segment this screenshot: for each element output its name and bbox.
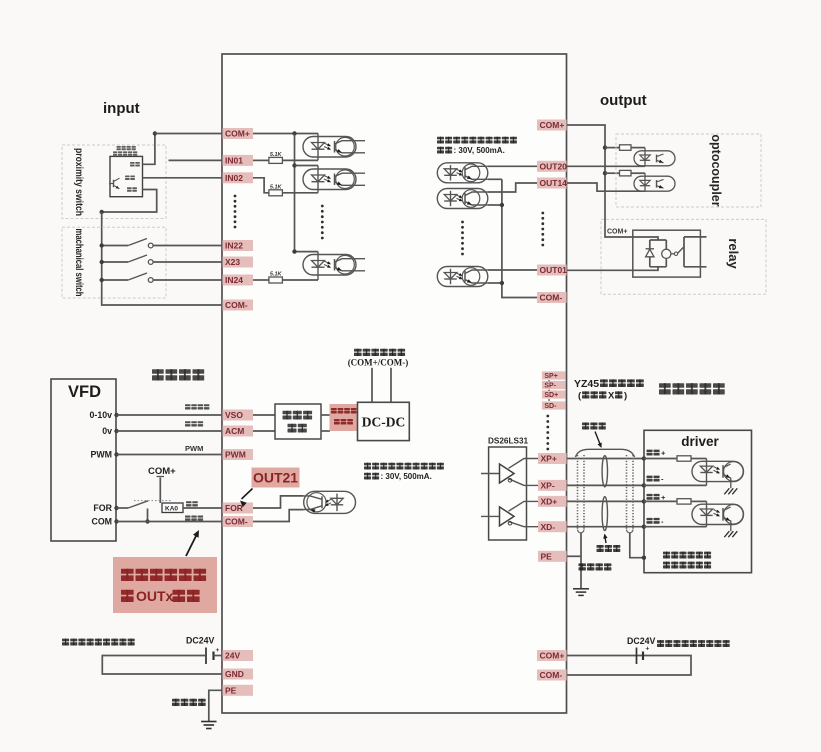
arrow note to COM- (186, 533, 198, 556)
note 注:用户自备电源2 (657, 640, 664, 643)
svg-text:PWM: PWM (91, 450, 113, 460)
tick SD+/SD- (548, 399, 550, 401)
terminal PWM (left mid) (223, 449, 254, 460)
junction bus opto3 (292, 249, 296, 253)
terminal COM- (left) (223, 300, 254, 311)
svg-text:FOR: FOR (93, 503, 112, 513)
svg-text:SP-: SP- (544, 383, 556, 390)
wire VSO (117, 414, 223, 416)
svg-text:5.1K: 5.1K (270, 272, 283, 278)
svg-text:DS26LS31: DS26LS31 (488, 437, 528, 446)
junction ext bus R5 (603, 171, 607, 175)
svg-text:5.1K: 5.1K (270, 184, 283, 190)
svg-text:driver: driver (681, 434, 719, 449)
svg-text:COM+: COM+ (540, 651, 565, 661)
junction driver edge y=458.5 (642, 456, 646, 460)
wire bus to R5 (605, 172, 620, 174)
svg-text:+: + (216, 647, 220, 654)
wire PWM (117, 454, 223, 456)
terminal XD- (538, 521, 567, 532)
switch S3 row (102, 273, 222, 282)
relay contact stub bottom (684, 266, 707, 268)
terminal IN22 (left) (223, 240, 254, 251)
arrow 屏蔽线 to cable (595, 432, 601, 447)
tick SP+/SP- (548, 380, 550, 382)
controller board outline (222, 54, 567, 713)
junction bus S3 (100, 278, 104, 282)
svg-text:XD+: XD+ (541, 497, 558, 507)
wire KA0 to FOR terminal (183, 507, 222, 509)
label 接屏蔽地 (right) (579, 563, 586, 566)
optocoupler U4 (OUT20) (437, 163, 488, 183)
svg-text:PE: PE (225, 685, 237, 695)
battery B2 (636, 648, 638, 665)
junction ext bus R4 (603, 145, 607, 149)
wire shield-left down to ground (580, 533, 582, 588)
svg-text:(COM+/COM-): (COM+/COM-) (348, 358, 409, 368)
junction driver edge y=501.4 (642, 499, 646, 503)
wire blue: sensor to common bus (102, 190, 157, 213)
svg-text:): ) (624, 391, 627, 402)
ellipsis dots input optos (321, 205, 324, 208)
wire OUT01 to relay coil (567, 267, 659, 271)
svg-text:KA0: KA0 (165, 506, 178, 513)
wire OUT14 jog to U5 (488, 183, 537, 192)
svg-text:+: + (661, 493, 666, 502)
terminal XD+ (538, 496, 567, 507)
note 注:用户自备电源1 (62, 639, 69, 642)
terminal OUT14 (right) (537, 178, 567, 189)
sensor caption line1 接近开关 (117, 146, 121, 148)
svg-text:: 30V, 500mA.: : 30V, 500mA. (454, 146, 505, 155)
wire ACM (117, 430, 223, 432)
wire contact to COM row (147, 509, 149, 522)
label 方向- (647, 518, 653, 520)
relay contact switch (671, 247, 684, 256)
junction driver edge y=485.4 (642, 483, 646, 487)
ellipsis dots below SD- (546, 415, 549, 418)
junction brown/COM+ (153, 131, 157, 135)
mechanical switch dashed box (62, 227, 166, 298)
svg-text:COM-: COM- (225, 517, 248, 527)
wire pulse- row (644, 484, 707, 486)
wire FOR internal (253, 496, 304, 508)
resistor R6 (677, 456, 691, 461)
svg-text:IN02: IN02 (225, 173, 243, 183)
label 正转 (186, 501, 192, 503)
terminal SP- (542, 381, 566, 390)
line driver B (XD) (481, 501, 538, 526)
svg-text:0-10v: 0-10v (90, 410, 113, 420)
relay contact stub top (684, 236, 707, 238)
wire IN24 to R3 (253, 279, 269, 281)
wire COM row (117, 521, 223, 523)
terminal XP- (538, 480, 567, 491)
input COM+ bus vertical (295, 134, 319, 252)
resistor R3 5.1K (269, 277, 283, 283)
note 接线方式请参考OUTx输出 box (113, 557, 217, 613)
wire COM+ battery loop (567, 656, 692, 676)
relay coil KA0 box (162, 503, 183, 513)
svg-text:output: output (600, 92, 647, 109)
switch S2 row (102, 255, 222, 264)
wire pulse+ to R6 (644, 458, 677, 460)
terminal COM- (right) (537, 292, 567, 303)
wire U5 emitter to bus (488, 204, 502, 206)
svg-text:OUT20: OUT20 (540, 161, 568, 171)
svg-text:YZ45: YZ45 (574, 378, 599, 390)
wire COM+ terminal feed (155, 133, 222, 135)
wire FOR pin to switch (117, 507, 129, 509)
common bus left (102, 212, 222, 305)
svg-text:PWM: PWM (185, 444, 203, 453)
optocoupler D1 (driver pulse) (692, 459, 744, 495)
svg-text:COM+: COM+ (607, 229, 627, 236)
switch blade KA0 contact (128, 501, 148, 508)
terminal FOR (left mid) (223, 503, 254, 514)
svg-text:COM-: COM- (225, 300, 248, 310)
wire DC-DC supply right (390, 368, 392, 403)
optocoupler U6 (OUT01) (437, 267, 488, 287)
relay K1 outer box (633, 230, 701, 277)
ground symbol (shield) (573, 589, 589, 596)
shield cable dome (576, 449, 635, 457)
DC-DC box (358, 402, 410, 440)
svg-text:X: X (608, 391, 615, 402)
note 请按设备的要求连接屏蔽线 (663, 552, 670, 555)
svg-text:IN22: IN22 (225, 241, 243, 251)
proximity sensor box (110, 156, 143, 196)
svg-text:COM+: COM+ (148, 466, 176, 477)
label 方向+ (647, 494, 653, 496)
optocoupler U9 (OUT21/FOR) (304, 491, 356, 513)
wire black: sensor to IN02 (143, 177, 223, 179)
svg-text:COM-: COM- (540, 670, 563, 680)
label 屏蔽线 (582, 423, 589, 426)
resistor R1 5.1K (269, 157, 283, 163)
dotted linkage (134, 500, 171, 502)
wire PE to shield (567, 555, 582, 557)
ellipsis dots input terminals (234, 195, 237, 198)
terminal ACM (left mid) (223, 426, 254, 437)
terminal OUT20 (right) (537, 161, 567, 172)
sensor wire label 棕 (130, 162, 135, 164)
wire XP- to driver (567, 484, 644, 486)
terminal IN02 (left) (223, 172, 254, 183)
svg-text:XP+: XP+ (541, 454, 557, 464)
wire PE to ground (209, 690, 223, 721)
junction bus S2 (100, 260, 104, 264)
sensor transistor Q (NPN) (109, 178, 120, 189)
wire OUT14 to ext opto2 cathode (567, 183, 646, 191)
wire IN02 jog to R2 (253, 178, 269, 193)
terminal PE (538, 551, 567, 562)
svg-text:0v: 0v (102, 426, 112, 436)
wire U6 emitter to bus (488, 282, 502, 284)
twisted pair ellipse 1 (602, 456, 607, 487)
terminal IN01 (left) (223, 155, 254, 166)
wire U4 emitter to bus (488, 178, 502, 180)
relay dashed box (601, 219, 766, 294)
optocoupler D2 (driver direction) (692, 501, 744, 537)
terminal 24V (223, 650, 254, 661)
wire dir+ to R7 (644, 500, 677, 502)
optocoupler U1 (IN01) (303, 134, 365, 161)
svg-text:COM+: COM+ (540, 120, 565, 130)
svg-text:SD-: SD- (544, 403, 557, 410)
resistor R7 (677, 499, 691, 504)
resistor R5 (620, 170, 632, 176)
wire IN01 to R1 (253, 159, 269, 161)
note max load (middle) (364, 463, 444, 482)
wire brown: sensor to COM+ (143, 134, 155, 165)
svg-text:DC-DC: DC-DC (362, 415, 406, 430)
junction driver edge y=526.7 (642, 525, 646, 529)
optocoupler U3 (IN24) (303, 252, 365, 280)
svg-text:PE: PE (541, 551, 553, 561)
battery B1 (205, 648, 207, 665)
svg-text:: 30V, 500mA.: : 30V, 500mA. (381, 472, 432, 481)
wire XD- to driver (567, 526, 644, 528)
svg-text:COM-: COM- (540, 293, 563, 303)
wire R5 to ext opto2 (631, 172, 645, 174)
arrow 双绞线 to pair (605, 536, 606, 543)
terminal XP+ (538, 453, 567, 464)
optocoupler U8 (external) (634, 173, 675, 191)
terminal COM+ (left) (223, 128, 254, 139)
terminal PE (left) (223, 685, 254, 696)
ellipsis dots output terminals (541, 212, 544, 215)
twisted pair ellipse 2 (602, 497, 607, 531)
proximity switch dashed box (62, 145, 166, 219)
label OUT21 box (252, 468, 300, 488)
label 双绞线 (597, 545, 604, 548)
relay branch bottom (650, 266, 667, 268)
label 脉冲+ (647, 450, 653, 452)
wire R7 to opto D2 (691, 500, 707, 502)
svg-text:optocoupler: optocoupler (709, 134, 723, 206)
svg-text:COM+: COM+ (225, 129, 250, 139)
svg-text:GND: GND (225, 669, 244, 679)
relay diode D1 (646, 240, 654, 267)
svg-text:DC24V: DC24V (627, 636, 655, 646)
junction driver edge y=557.7 (642, 556, 646, 560)
title 主轴接口 (152, 369, 164, 374)
wire XD+ to driver (567, 500, 644, 502)
sensor caption line2 3线制NPN型 (113, 151, 117, 153)
note max load (output) (437, 137, 517, 156)
wire bus to R4 (605, 147, 620, 149)
wire VSO internal (253, 414, 275, 416)
junction contact/COM (145, 519, 149, 523)
shield cable left column (578, 455, 585, 533)
wire battery loop to GND (102, 656, 222, 675)
svg-text:IN24: IN24 (225, 275, 243, 285)
line driver A (XP) (481, 459, 538, 486)
terminal COM+ (bottom right) (537, 650, 567, 661)
svg-text:XD-: XD- (541, 522, 556, 532)
svg-text:PWM: PWM (225, 450, 246, 460)
wire DC-DC supply left (371, 368, 373, 403)
driver box (644, 430, 752, 572)
label 输入输出电源 (354, 349, 362, 352)
title 驱动轴接口 (659, 383, 671, 388)
svg-text:X23: X23 (225, 257, 240, 267)
wire U6 collector to OUT01 (488, 269, 537, 271)
svg-text:OUT14: OUT14 (540, 178, 568, 188)
tick SP-/SD+ (548, 390, 550, 392)
terminal COM+ (right) (537, 120, 567, 131)
wire R1 to opto1 cathode (282, 159, 318, 161)
label 公共地 (185, 516, 191, 518)
junction bus opto2 (292, 163, 296, 167)
terminal SD+ (542, 390, 566, 399)
wire stub to IN01 (169, 159, 223, 161)
wire COM+ internal to bus (253, 133, 318, 135)
optocoupler U7 (external) (634, 148, 675, 167)
resistor R2 5.1K (269, 190, 283, 196)
wire COM- internal (mid) (253, 510, 304, 522)
junction blue/bus (100, 210, 104, 214)
pink label 主轴模拟量电源 (330, 404, 358, 431)
svg-text:DC24V: DC24V (186, 636, 214, 646)
relay contact bar (683, 237, 685, 267)
svg-text:OUT01: OUT01 (540, 265, 568, 275)
svg-text:VFD: VFD (68, 383, 101, 401)
switch S1 row (102, 239, 222, 248)
wire R6 to opto D1 (691, 458, 707, 460)
label 脉冲- (647, 476, 653, 478)
wire R3 to opto3 cathode (282, 279, 318, 281)
wire OUT20 to ext opto1 cathode (567, 165, 646, 167)
svg-text:+: + (661, 449, 666, 458)
svg-text:5.1K: 5.1K (270, 152, 283, 158)
wire XP+ to driver (567, 458, 644, 460)
optocoupler U2 (IN02) (303, 166, 365, 193)
label 接屏蔽地 (left) (172, 699, 180, 702)
analog circuit box 模拟量电路 (275, 404, 321, 439)
sensor wire label 蓝 (127, 187, 132, 189)
wire R2 to opto2 cathode (282, 192, 318, 194)
svg-text:input: input (103, 100, 140, 117)
wire ACM internal (253, 430, 275, 432)
wire R4 to ext opto1 (631, 147, 645, 149)
junction bus S1 (100, 243, 104, 247)
wire analog to pink label (321, 414, 330, 416)
wire COM+ ext bus (567, 125, 659, 240)
label 模拟地 (185, 421, 191, 423)
optocoupler U5 (OUT14) (437, 189, 488, 209)
svg-text:SP+: SP+ (544, 373, 557, 380)
label 模拟输出 (185, 404, 191, 406)
DS26LS31 box (489, 447, 527, 540)
svg-text:COM: COM (91, 517, 112, 527)
wire shield-right to driver (630, 533, 644, 558)
svg-text:OUTx: OUTx (136, 588, 174, 604)
terminal SD- (542, 401, 566, 410)
wire U4 collector to OUT20 (488, 165, 537, 167)
svg-text:24V: 24V (225, 651, 240, 661)
junction U5 emitter (500, 203, 504, 207)
relay coil (662, 240, 671, 267)
terminal OUT01 (right) (537, 265, 567, 276)
svg-text:+: + (646, 646, 650, 653)
svg-text:OUT21: OUT21 (253, 470, 298, 486)
svg-text:VSO: VSO (225, 410, 243, 420)
junction U6 emitter (500, 281, 504, 285)
ellipsis dots output optos (461, 221, 464, 224)
wire opto2 anode (295, 165, 319, 167)
terminal COM- (left mid) (223, 516, 254, 527)
optocoupler dashed box (616, 134, 761, 207)
wire dir- row (644, 526, 707, 528)
wire 24V to battery (214, 655, 223, 657)
wire COM+ down to KA0 (159, 478, 161, 504)
ground symbol (PE left) (201, 722, 217, 729)
svg-text:FOR: FOR (225, 503, 243, 513)
terminal IN24 (left) (223, 275, 254, 286)
terminal SP+ (542, 371, 566, 380)
svg-text:ACM: ACM (225, 426, 244, 436)
svg-text:machanical switch: machanical switch (73, 229, 84, 297)
sensor wire label 黑 (125, 176, 130, 178)
terminal COM- (bottom right) (537, 670, 567, 681)
output COM- bus (502, 179, 537, 297)
junction COM+ bus (292, 131, 296, 135)
resistor R4 (620, 145, 632, 151)
svg-text:XP-: XP- (541, 481, 555, 491)
shield cable right column (627, 455, 634, 533)
svg-text:IN01: IN01 (225, 156, 243, 166)
arrow OUT21 to FOR (242, 489, 253, 500)
svg-text:SD+: SD+ (544, 392, 558, 399)
relay branch top (650, 239, 667, 241)
terminal X23 (left) (223, 257, 254, 268)
svg-text:proximity switch: proximity switch (73, 148, 84, 216)
terminal VSO (left mid) (223, 410, 254, 421)
svg-text:relay: relay (726, 238, 741, 269)
terminal GND (223, 669, 254, 680)
VFD box (51, 379, 116, 541)
